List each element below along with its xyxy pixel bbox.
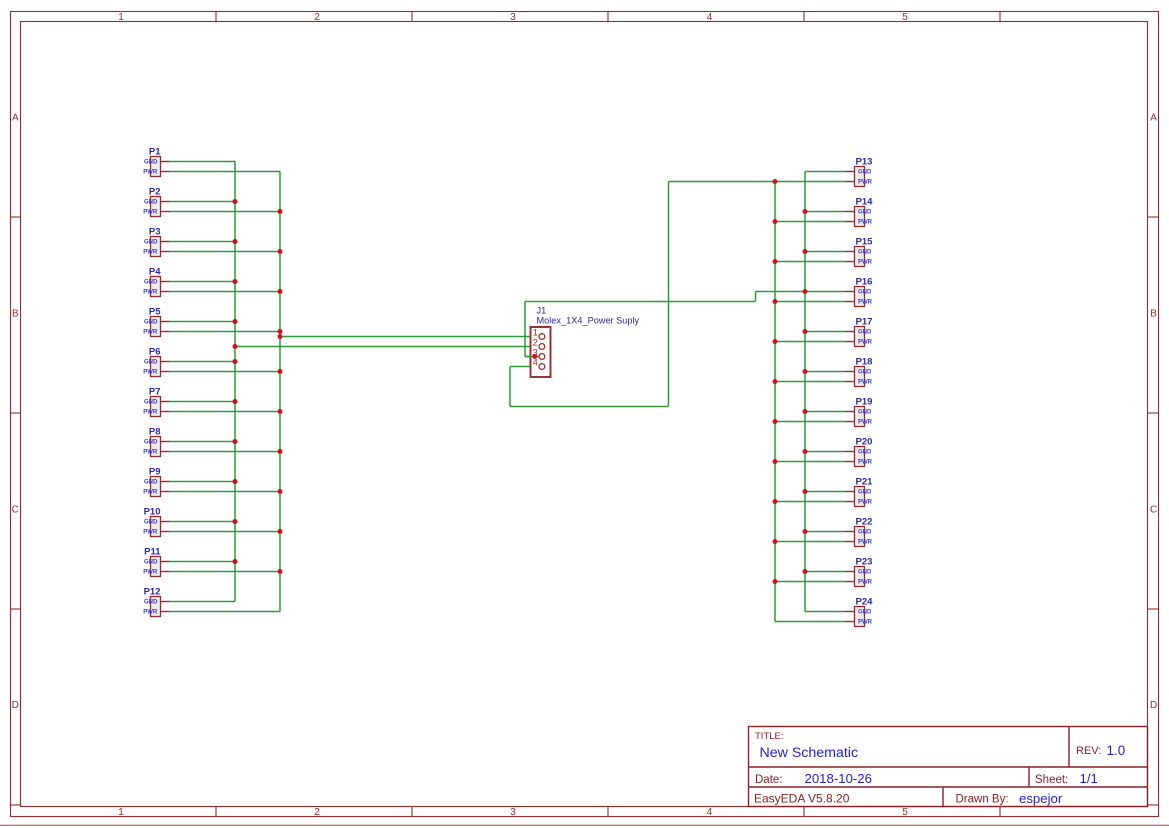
svg-text:Sheet:: Sheet: bbox=[1035, 774, 1068, 786]
svg-text:P3: P3 bbox=[149, 226, 161, 237]
svg-text:P1: P1 bbox=[149, 146, 161, 157]
svg-text:GND: GND bbox=[144, 200, 158, 206]
svg-text:5: 5 bbox=[902, 807, 908, 818]
svg-text:P9: P9 bbox=[149, 466, 161, 477]
svg-text:P21: P21 bbox=[856, 476, 874, 487]
svg-text:P19: P19 bbox=[856, 396, 873, 407]
svg-text:P12: P12 bbox=[144, 586, 161, 597]
svg-text:J1: J1 bbox=[537, 306, 547, 316]
svg-text:D: D bbox=[1150, 700, 1157, 711]
svg-text:PWR: PWR bbox=[858, 540, 873, 546]
svg-text:GND: GND bbox=[144, 560, 158, 566]
svg-text:PWR: PWR bbox=[143, 330, 158, 336]
svg-text:P24: P24 bbox=[856, 596, 874, 607]
svg-text:GND: GND bbox=[144, 520, 158, 526]
svg-text:REV:: REV: bbox=[1076, 745, 1101, 757]
svg-text:GND: GND bbox=[144, 440, 158, 446]
svg-text:GND: GND bbox=[858, 170, 872, 176]
svg-text:1: 1 bbox=[118, 12, 124, 23]
svg-text:New Schematic: New Schematic bbox=[760, 745, 859, 761]
svg-text:Date:: Date: bbox=[755, 774, 783, 786]
svg-text:PWR: PWR bbox=[858, 580, 873, 586]
svg-text:GND: GND bbox=[858, 610, 872, 616]
svg-text:GND: GND bbox=[144, 280, 158, 286]
svg-text:B: B bbox=[12, 309, 19, 320]
svg-text:3: 3 bbox=[510, 807, 516, 818]
svg-text:PWR: PWR bbox=[858, 420, 873, 426]
svg-text:4: 4 bbox=[707, 807, 713, 818]
svg-text:PWR: PWR bbox=[143, 370, 158, 376]
svg-text:PWR: PWR bbox=[858, 260, 873, 266]
svg-text:GND: GND bbox=[144, 320, 158, 326]
svg-text:PWR: PWR bbox=[858, 180, 873, 186]
svg-text:3: 3 bbox=[510, 12, 516, 23]
svg-text:PWR: PWR bbox=[858, 220, 873, 226]
svg-text:PWR: PWR bbox=[143, 490, 158, 496]
svg-text:A: A bbox=[1150, 113, 1157, 124]
svg-text:GND: GND bbox=[144, 160, 158, 166]
svg-text:GND: GND bbox=[858, 410, 872, 416]
svg-text:1.0: 1.0 bbox=[1107, 743, 1126, 758]
svg-text:GND: GND bbox=[858, 330, 872, 336]
svg-text:PWR: PWR bbox=[143, 530, 158, 536]
svg-text:P7: P7 bbox=[149, 386, 161, 397]
svg-text:P6: P6 bbox=[149, 346, 161, 357]
svg-text:B: B bbox=[1150, 309, 1157, 320]
svg-text:A: A bbox=[12, 113, 19, 124]
svg-text:Drawn By:: Drawn By: bbox=[956, 794, 1009, 806]
svg-text:GND: GND bbox=[858, 370, 872, 376]
svg-text:GND: GND bbox=[858, 490, 872, 496]
svg-text:PWR: PWR bbox=[143, 210, 158, 216]
svg-text:P8: P8 bbox=[149, 426, 161, 437]
svg-text:P14: P14 bbox=[856, 196, 874, 207]
svg-text:GND: GND bbox=[858, 530, 872, 536]
svg-text:PWR: PWR bbox=[858, 500, 873, 506]
svg-text:PWR: PWR bbox=[143, 410, 158, 416]
svg-text:PWR: PWR bbox=[858, 340, 873, 346]
svg-text:1/1: 1/1 bbox=[1080, 771, 1098, 786]
svg-text:P15: P15 bbox=[856, 236, 874, 247]
svg-text:TITLE:: TITLE: bbox=[755, 731, 784, 742]
svg-text:PWR: PWR bbox=[143, 610, 158, 616]
svg-text:C: C bbox=[12, 505, 19, 516]
svg-text:GND: GND bbox=[858, 210, 872, 216]
svg-text:PWR: PWR bbox=[143, 570, 158, 576]
svg-text:GND: GND bbox=[144, 360, 158, 366]
svg-text:PWR: PWR bbox=[858, 300, 873, 306]
svg-text:P11: P11 bbox=[144, 546, 161, 557]
svg-text:PWR: PWR bbox=[858, 620, 873, 626]
svg-text:P5: P5 bbox=[149, 306, 161, 317]
svg-text:4: 4 bbox=[533, 358, 538, 368]
svg-text:GND: GND bbox=[144, 480, 158, 486]
svg-text:P16: P16 bbox=[856, 276, 873, 287]
svg-text:4: 4 bbox=[707, 12, 713, 23]
svg-text:P23: P23 bbox=[856, 556, 873, 567]
svg-text:PWR: PWR bbox=[858, 460, 873, 466]
svg-text:PWR: PWR bbox=[143, 450, 158, 456]
svg-text:P4: P4 bbox=[149, 266, 161, 277]
svg-text:P17: P17 bbox=[856, 316, 873, 327]
svg-text:GND: GND bbox=[858, 290, 872, 296]
svg-text:1: 1 bbox=[118, 807, 124, 818]
svg-text:Molex_1X4_Power Suply: Molex_1X4_Power Suply bbox=[537, 316, 640, 326]
svg-text:PWR: PWR bbox=[143, 170, 158, 176]
svg-text:GND: GND bbox=[144, 600, 158, 606]
svg-text:P13: P13 bbox=[856, 156, 873, 167]
svg-text:2: 2 bbox=[314, 807, 320, 818]
svg-text:2: 2 bbox=[533, 338, 538, 348]
svg-text:espejor: espejor bbox=[1019, 791, 1063, 806]
svg-text:2018-10-26: 2018-10-26 bbox=[805, 771, 872, 786]
svg-text:2: 2 bbox=[314, 12, 320, 23]
svg-text:PWR: PWR bbox=[143, 250, 158, 256]
svg-text:GND: GND bbox=[144, 240, 158, 246]
svg-text:GND: GND bbox=[144, 400, 158, 406]
svg-text:1: 1 bbox=[533, 328, 538, 338]
svg-text:PWR: PWR bbox=[143, 290, 158, 296]
svg-text:P10: P10 bbox=[144, 506, 161, 517]
svg-text:EasyEDA V5.8.20: EasyEDA V5.8.20 bbox=[754, 792, 850, 806]
svg-text:GND: GND bbox=[858, 450, 872, 456]
svg-text:GND: GND bbox=[858, 570, 872, 576]
svg-text:P20: P20 bbox=[856, 436, 873, 447]
svg-text:P18: P18 bbox=[856, 356, 873, 367]
svg-text:5: 5 bbox=[902, 12, 908, 23]
svg-text:P2: P2 bbox=[149, 186, 161, 197]
svg-text:C: C bbox=[1150, 505, 1157, 516]
svg-text:PWR: PWR bbox=[858, 380, 873, 386]
svg-text:D: D bbox=[12, 700, 19, 711]
svg-text:GND: GND bbox=[858, 250, 872, 256]
svg-text:P22: P22 bbox=[856, 516, 873, 527]
